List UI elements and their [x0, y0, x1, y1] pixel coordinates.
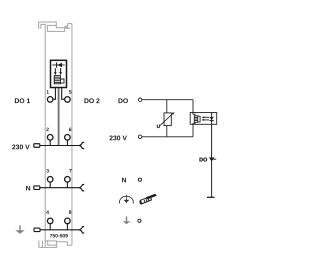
terminal 1	[47, 97, 53, 103]
terminal 7 stem	[66, 182, 68, 188]
row 4: ground wire	[40, 229, 80, 231]
crowfoot fork row4	[79, 227, 84, 234]
coupling arrows	[202, 116, 210, 121]
label 230 V left	[12, 145, 29, 150]
row 3: N wire	[40, 187, 80, 189]
wire entry connector row2	[34, 144, 40, 148]
power jumper bus bar	[58, 88, 60, 146]
varistor U	[164, 113, 171, 126]
module head latch inner	[41, 24, 45, 29]
varistor branch bottom	[166, 126, 168, 137]
terminal 6	[65, 135, 71, 141]
terminal 230V circle	[138, 135, 141, 138]
module right edge	[71, 24, 73, 246]
pin number 8	[69, 210, 71, 214]
module head inner pocket	[47, 25, 70, 31]
legend power jumper arrow	[123, 216, 130, 224]
pin number 3	[46, 169, 48, 173]
terminal 4 stem	[49, 224, 51, 230]
wire stub box to terminal 5	[62, 88, 65, 100]
crowfoot fork row2	[79, 142, 84, 149]
terminal 4	[47, 218, 53, 224]
crowfoot fork row3	[79, 184, 84, 191]
label 750-509	[50, 234, 68, 238]
row 2: 230V wire	[40, 145, 80, 147]
pin number 2	[46, 128, 48, 131]
legend DIN rail icon	[139, 194, 156, 205]
status LED box	[51, 60, 67, 87]
varistor label U	[157, 125, 160, 128]
wire stub box to terminal 1	[53, 88, 56, 100]
label 230 V middle	[109, 136, 126, 141]
terminal DO circle	[138, 98, 141, 101]
wire entry connector row4	[34, 228, 40, 232]
label DO right	[200, 158, 208, 162]
LED box lower element (coupler)	[54, 76, 64, 84]
label N left	[26, 186, 30, 191]
bottom wire	[142, 136, 193, 138]
module head profile	[39, 22, 72, 29]
coupler element	[194, 116, 200, 123]
label DO 1	[15, 98, 30, 103]
label DO 2	[84, 98, 99, 103]
legend N	[122, 178, 126, 183]
legend circle row C	[138, 219, 141, 222]
terminal 8	[65, 218, 71, 224]
terminal 7	[65, 177, 71, 183]
legend earth-dome icon	[120, 195, 134, 204]
internal bus end bar	[207, 196, 215, 198]
terminal 5	[65, 97, 71, 103]
LED diode symbol	[52, 62, 64, 67]
top wire	[142, 99, 193, 101]
module 750-509 body outline	[39, 22, 72, 247]
varistor arrow	[159, 113, 173, 126]
legend circle row A	[138, 178, 141, 181]
LED diode in box	[210, 113, 214, 198]
terminal 6 stem	[66, 140, 68, 146]
opto relay box	[190, 113, 217, 125]
wire entry connector row3	[34, 186, 40, 190]
varistor branch top	[166, 100, 168, 113]
terminal 2 stem	[49, 140, 51, 146]
left margin power jumper arrow	[15, 225, 24, 233]
LED emission arrows	[54, 68, 62, 75]
pin number 6	[69, 128, 71, 132]
pin number 1	[47, 90, 49, 93]
right branch wire with jog	[193, 100, 195, 137]
label DO (column 3)	[118, 98, 127, 103]
pin number 4	[46, 210, 49, 213]
pin number 5	[69, 90, 71, 93]
terminal 3	[47, 177, 53, 183]
module left edge	[44, 24, 46, 248]
module foot profile	[38, 240, 40, 247]
pin number 7	[69, 169, 71, 172]
terminal 3 stem	[49, 182, 51, 188]
terminal 2	[47, 135, 53, 141]
DO data direction arrow	[209, 158, 215, 162]
terminal 8 stem	[66, 224, 68, 230]
